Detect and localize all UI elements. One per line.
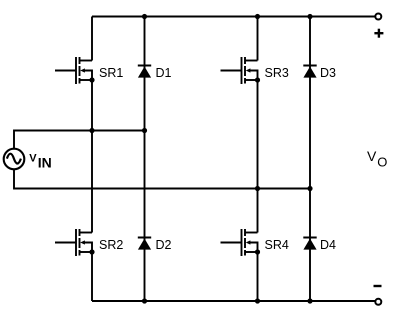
junction bottom rail / D2 [142,298,147,303]
svg-text:D1: D1 [156,66,172,80]
AC source VIN [4,149,25,170]
terminal VO+ [375,14,381,20]
MOSFET SR2 [55,229,95,256]
svg-text:D2: D2 [156,238,172,252]
wire SR3 drain riser [257,17,259,61]
junction AC node 1 / D branch [142,128,147,133]
svg-text:SR1: SR1 [99,66,123,80]
svg-text:O: O [377,155,387,170]
junction top rail / D1 [142,14,147,19]
junction top rail / D3 [307,14,312,19]
junction top rail / SR3 [255,14,260,19]
diode D1 [138,66,151,78]
wire D3/D4 branch [309,17,311,302]
svg-text:D3: D3 [320,66,336,80]
svg-text:IN: IN [38,154,52,170]
wire SR1 drain riser [91,17,93,61]
diode D3 [303,66,316,78]
wire D1/D2 branch [144,17,146,302]
wire top output rail [92,16,375,18]
svg-text:V: V [29,152,37,164]
MOSFET SR4 [221,229,261,256]
terminal VO- [375,299,381,305]
wire bottom output rail [92,300,375,302]
junction AC node 1 / SR branch [89,128,94,133]
svg-text:SR2: SR2 [99,238,123,252]
plus sign [374,29,383,38]
label VIN [29,152,51,170]
wire SR2 source to bottom rail [91,252,93,301]
wire AC node 2 rail (VIN-) [14,169,310,188]
junction bottom rail / SR4 [255,298,260,303]
minus sign [374,285,382,287]
svg-text:SR4: SR4 [265,238,289,252]
wire SR3 source to SR4 drain [257,80,259,233]
wire AC node 1 rail (VIN+) [14,131,145,149]
junction AC node 2 / SR branch [255,186,260,191]
diode D2 [138,238,151,250]
label VO [367,148,387,170]
svg-text:SR3: SR3 [265,66,289,80]
junction bottom rail / D4 [307,298,312,303]
svg-text:V: V [367,148,377,164]
wire SR1 source to SR2 drain [91,80,93,233]
svg-text:D4: D4 [320,238,336,252]
MOSFET SR3 [221,57,261,84]
MOSFET SR1 [55,57,95,84]
diode D4 [303,238,316,250]
wire SR4 source to bottom rail [257,252,259,301]
junction AC node 2 / D branch [307,186,312,191]
